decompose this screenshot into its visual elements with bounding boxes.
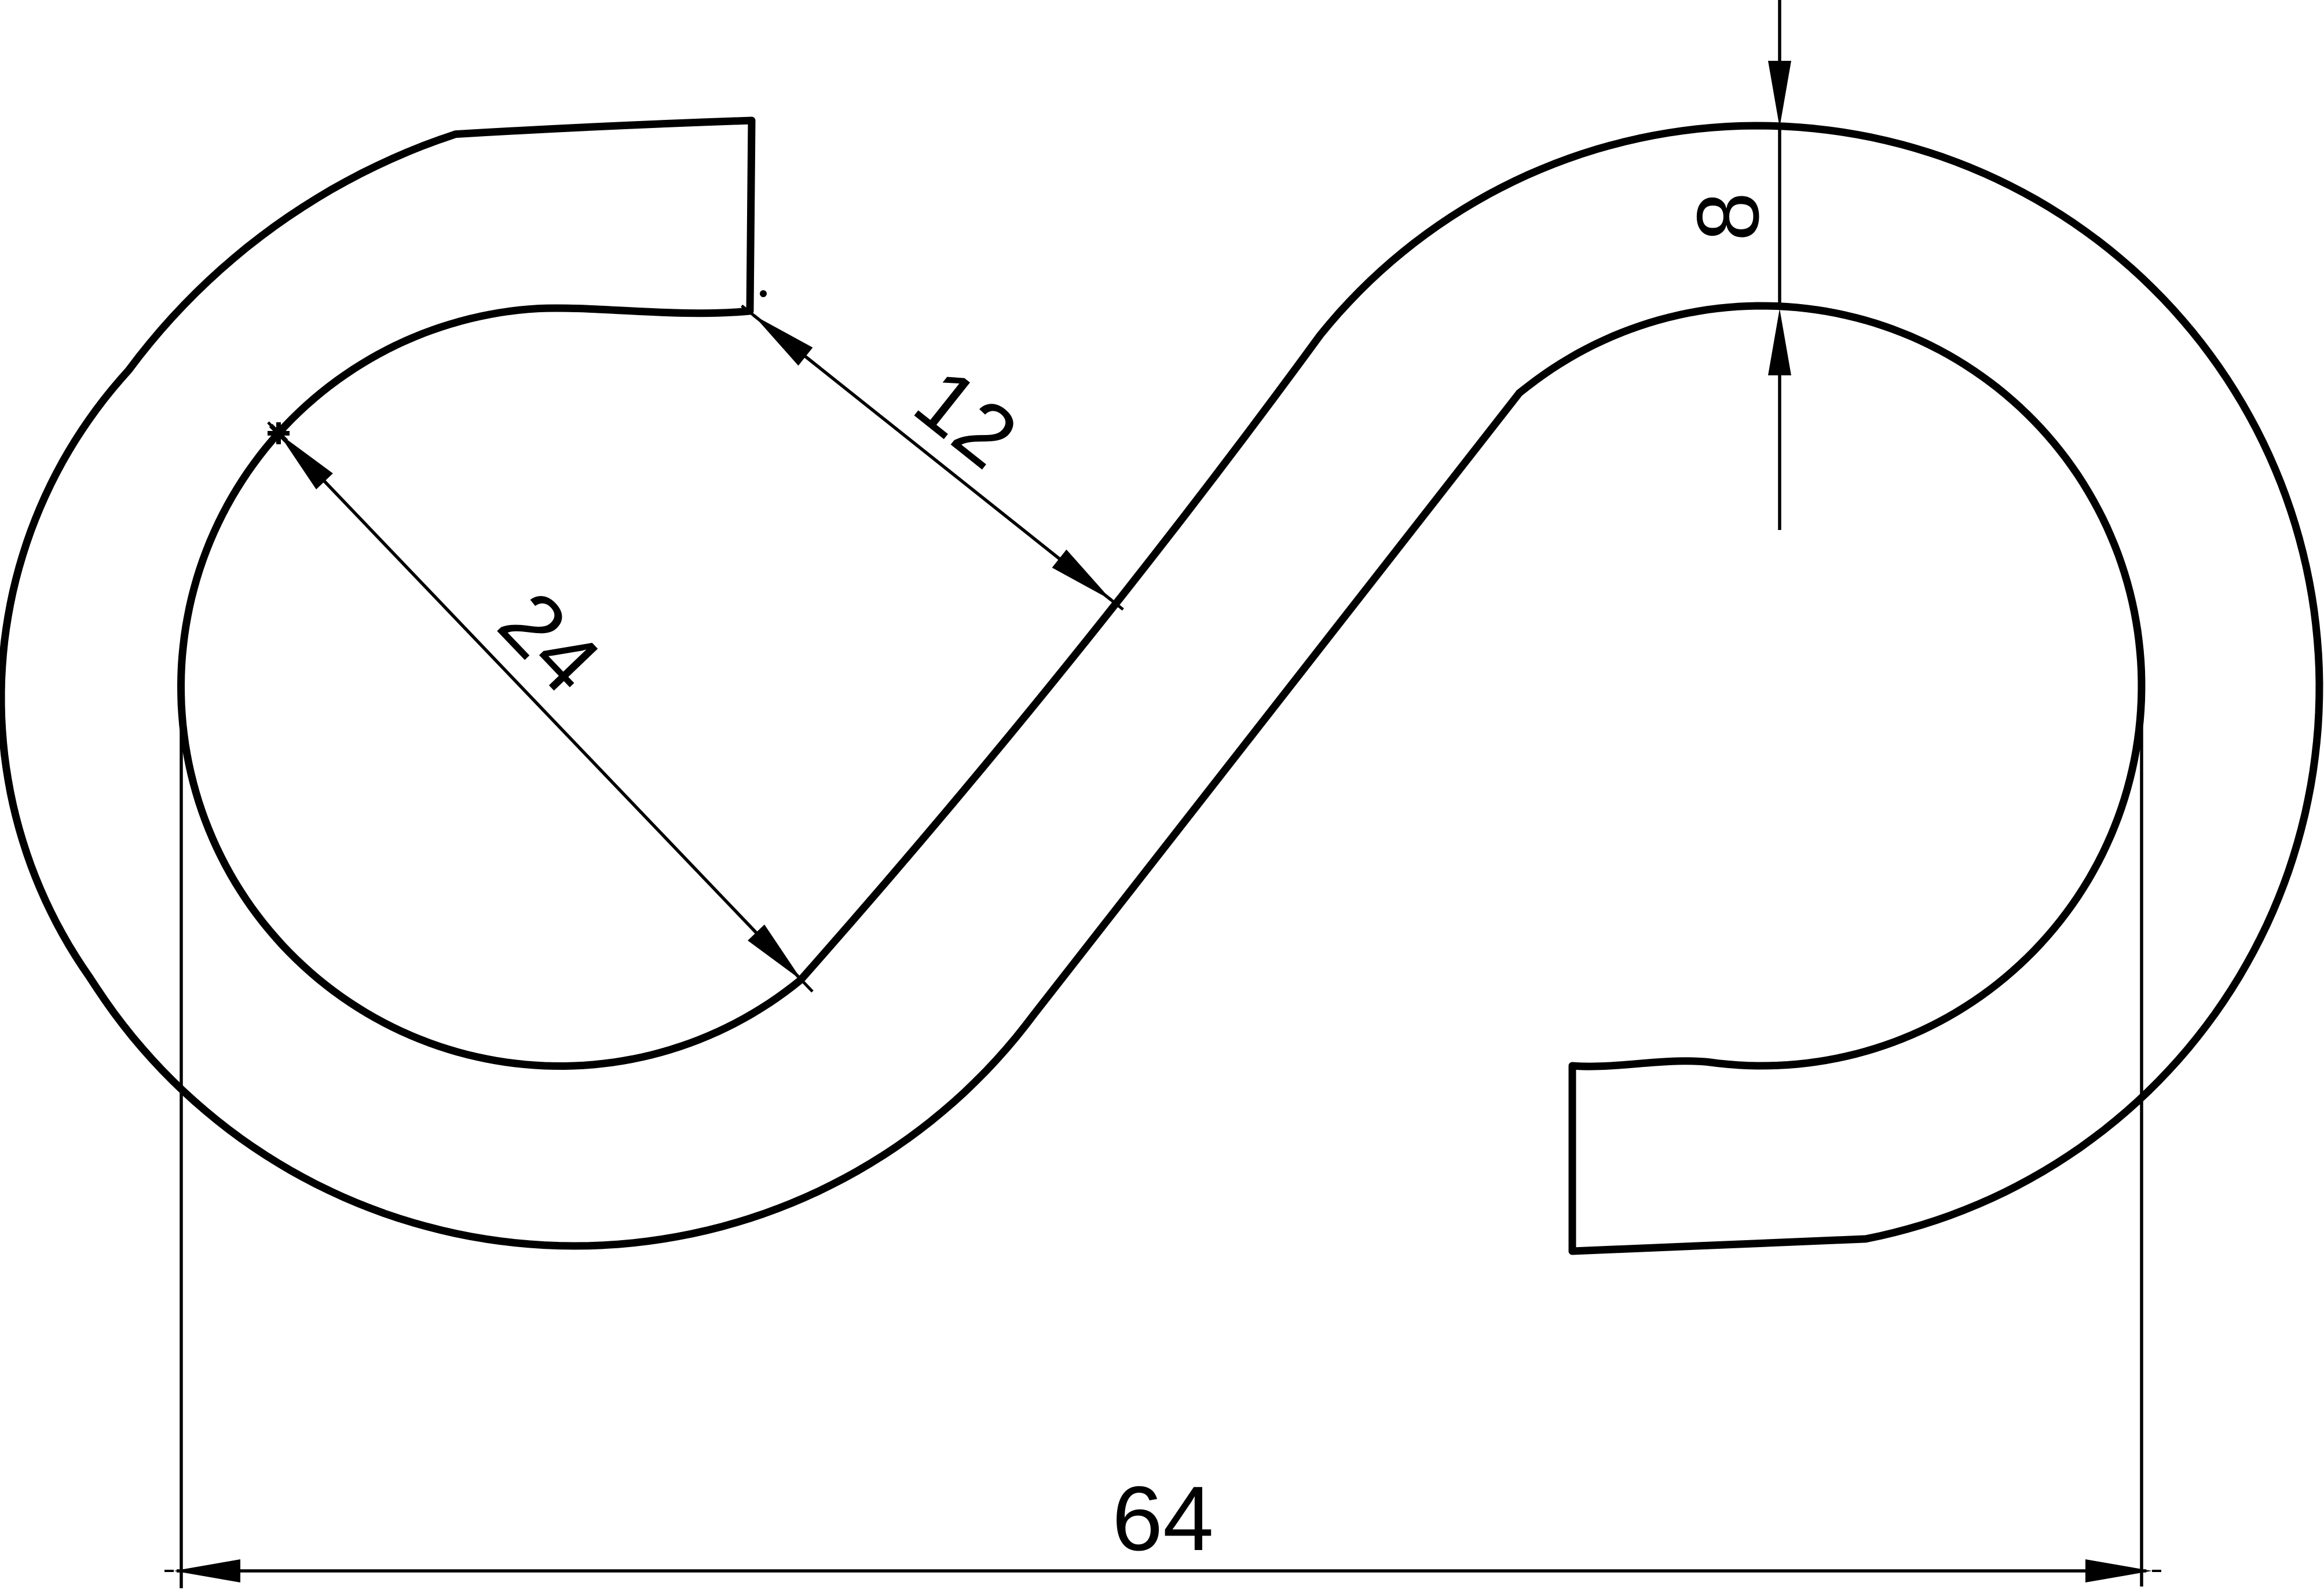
svg-text:64: 64 [1112, 1468, 1214, 1570]
svg-text:8: 8 [1679, 192, 1777, 242]
